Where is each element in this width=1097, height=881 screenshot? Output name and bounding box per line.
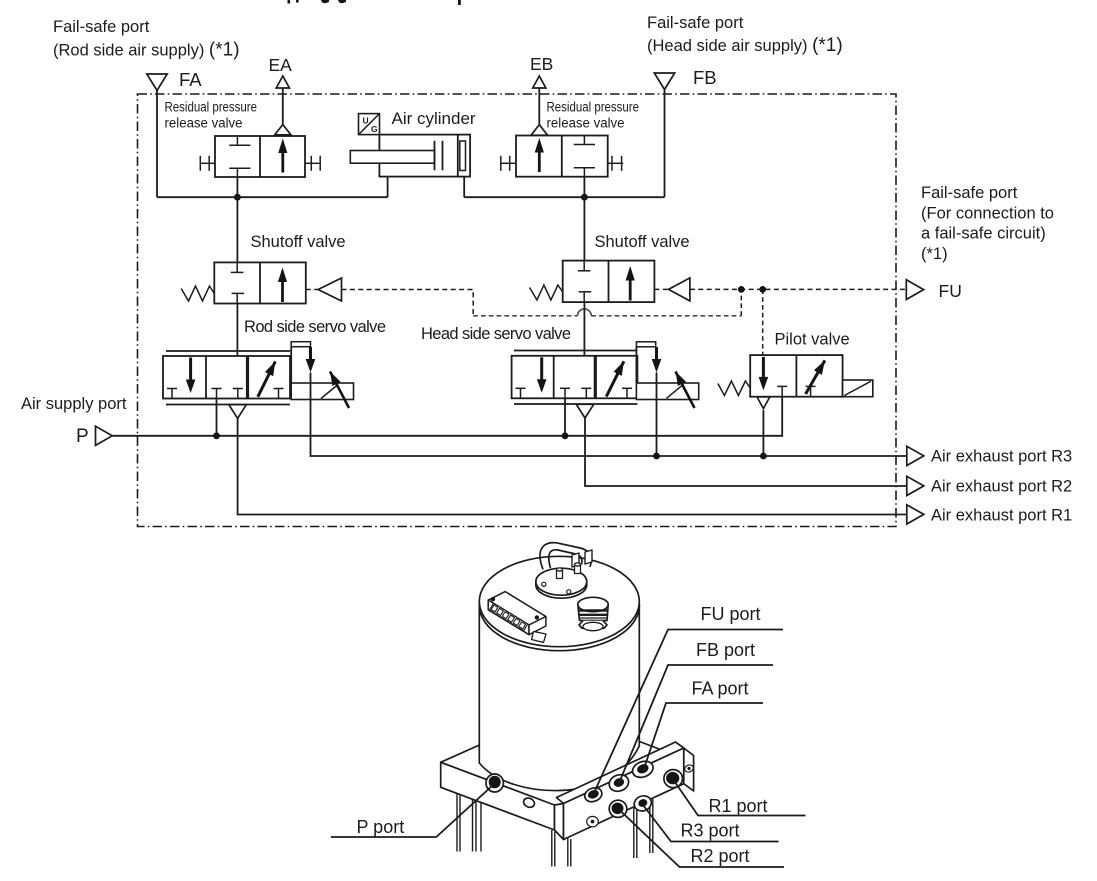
svg-text:FU port: FU port (701, 604, 761, 624)
svg-text:Shutoff valve: Shutoff valve (595, 233, 690, 251)
node rod-side junction (234, 194, 241, 201)
wire P supply main (112, 397, 782, 436)
wire P to head servo (564, 398, 566, 436)
node on FU wire (to pilot valve) (759, 286, 766, 293)
R1 port hole (664, 770, 683, 788)
head side servo valve body (512, 342, 699, 408)
svg-text:EA: EA (269, 55, 293, 75)
svg-text:(For connection to: (For connection to (921, 205, 1054, 223)
svg-text:FA port: FA port (692, 679, 749, 699)
svg-text:a fail-safe circuit): a fail-safe circuit) (921, 225, 1046, 243)
svg-text:Fail-safe port: Fail-safe port (53, 18, 150, 36)
port R2 triangle + label (907, 476, 924, 495)
svg-text:R2 port: R2 port (691, 846, 750, 866)
exhaust triangle under pilot valve (757, 397, 770, 409)
svg-text:R1 port: R1 port (709, 796, 768, 816)
svg-text:Residual pressure: Residual pressure (165, 100, 258, 116)
port R3 triangle + label (907, 446, 924, 465)
wire head-side manifold (464, 196, 664, 198)
manifold block top strip (557, 742, 684, 804)
dash-dot enclosure border (138, 94, 897, 527)
wire rod servo pilot down to R3 (311, 373, 907, 457)
svg-text:Air supply port: Air supply port (21, 395, 127, 413)
shutoff valve (right) body (563, 261, 655, 303)
wire head servo pilot down to R3 node (656, 373, 658, 457)
base plate top face (441, 710, 694, 815)
wire shutoff (left) to rod servo valve (236, 304, 238, 366)
svg-text:P: P (76, 426, 89, 447)
wire rod servo exhaust down to R1 (238, 418, 907, 514)
wire release valve (right) down to node (583, 177, 585, 198)
svg-text:Shutoff valve: Shutoff valve (251, 233, 346, 251)
handle bolts (572, 550, 592, 567)
wire cylinder rod-side port (387, 177, 389, 198)
svg-text:Rod side servo valve: Rod side servo valve (244, 318, 386, 336)
R2 port hole (609, 800, 627, 817)
svg-text:G: G (371, 124, 378, 134)
spring shutoff valve (left) (181, 286, 214, 301)
pilot line + triangle shutoff (left) (306, 289, 318, 291)
svg-text:Residual pressure: Residual pressure (547, 100, 640, 116)
svg-text:R3 port: R3 port (681, 821, 740, 841)
sensor cap rim (536, 571, 587, 598)
wire node to shutoff valve (left) (236, 197, 238, 262)
node on FU wire (from left shutoff) (738, 286, 745, 293)
manifold block left joint (555, 804, 564, 840)
wire rod-side manifold (157, 196, 388, 198)
hop arc (578, 309, 592, 316)
port FA (fail-safe rod side) triangle (147, 74, 167, 91)
node head-side junction (581, 194, 588, 201)
rod side servo valve body (163, 342, 354, 408)
dashed drop to pilot valve (762, 289, 764, 355)
drum body (479, 603, 639, 791)
residual pressure release valve (right) body (501, 125, 624, 177)
svg-text:FU: FU (939, 281, 962, 301)
wire cylinder head-side port (463, 177, 465, 198)
wire P to rod servo (216, 399, 218, 437)
port FB (fail-safe head side) triangle (654, 73, 674, 90)
air cylinder body (350, 135, 470, 177)
exhaust triangle under head servo (576, 404, 593, 418)
wire FA down to rod-side line (156, 91, 158, 198)
cap bolts standing (557, 570, 563, 579)
svg-text:FB: FB (693, 67, 717, 88)
svg-text:(*1): (*1) (921, 245, 948, 263)
wire head servo exhaust down to R2 (585, 418, 907, 486)
svg-text:Fail-safe port: Fail-safe port (647, 14, 744, 32)
svg-text:Air exhaust port R2: Air exhaust port R2 (931, 478, 1072, 496)
spring shutoff valve (right) (530, 285, 563, 300)
svg-text:Air cylinder: Air cylinder (392, 109, 476, 128)
svg-text:release valve: release valve (165, 116, 243, 132)
svg-text:(Rod side air supply) (*1): (Rod side air supply) (*1) (53, 40, 240, 61)
small screws on block (684, 764, 695, 774)
svg-text:U: U (363, 116, 369, 126)
FB port hole (607, 772, 631, 794)
cap screws (542, 582, 546, 586)
residual pressure release valve (left) body (200, 125, 321, 177)
leader FU port (331, 630, 806, 868)
FU port hole (583, 785, 604, 804)
shutoff valve (left) body (214, 262, 305, 303)
legs (457, 793, 653, 867)
rect connector (6-pin) (488, 592, 546, 643)
svg-text:FB port: FB port (696, 640, 755, 660)
P port hole (486, 774, 503, 792)
wire node to shutoff valve (right) (583, 197, 585, 260)
wire EA to release valve (282, 88, 284, 125)
manifold block right end (684, 748, 694, 791)
port R1 triangle + label (907, 505, 924, 524)
wire release valve (left) down to node (236, 177, 238, 197)
dashed pilot wire from shutoff (left) (342, 290, 474, 316)
round connector (578, 605, 608, 621)
svg-text:EB: EB (530, 54, 553, 74)
svg-text:release valve: release valve (547, 116, 625, 132)
spring pilot valve (718, 381, 750, 396)
R3 port hole (632, 793, 654, 813)
handle (540, 543, 591, 570)
svg-text:Air exhaust port R1: Air exhaust port R1 (931, 507, 1072, 525)
svg-text:Fail-safe port: Fail-safe port (921, 184, 1018, 202)
port FU triangle (906, 280, 923, 300)
small oval hole left face (522, 796, 536, 809)
FA port hole (630, 758, 655, 780)
plate left front face (441, 762, 555, 830)
svg-text:(Head side air supply) (*1): (Head side air supply) (*1) (647, 35, 843, 56)
drum lid rim (479, 560, 639, 650)
air cylinder position sensor U/G (359, 114, 380, 135)
svg-text:Air exhaust port R3: Air exhaust port R3 (931, 448, 1072, 466)
svg-text:FA: FA (179, 69, 202, 90)
exhaust triangle under rod servo (229, 405, 246, 419)
manifold block front face (564, 748, 684, 840)
pilot line + triangle shutoff (right) (654, 288, 668, 290)
wire FB down to head-side line (664, 90, 666, 198)
svg-text:P port: P port (357, 817, 405, 837)
wire EB to release valve (538, 88, 540, 125)
drum lid top (479, 556, 639, 646)
wire pilot exhaust to R3 node (762, 410, 764, 456)
dashed riser to FU line (740, 289, 742, 315)
pilot valve body (750, 355, 873, 397)
dashed pilot wire lower run with hop over head supply line (473, 315, 741, 317)
dashed FU wire (690, 288, 906, 290)
svg-text:Head side servo valve: Head side servo valve (421, 325, 571, 343)
wire shutoff (right) to head servo valve (583, 302, 585, 367)
sensor cap (536, 568, 587, 595)
cut-off text descenders at top edge (288, 0, 461, 5)
svg-text:Pilot valve: Pilot valve (775, 331, 850, 349)
